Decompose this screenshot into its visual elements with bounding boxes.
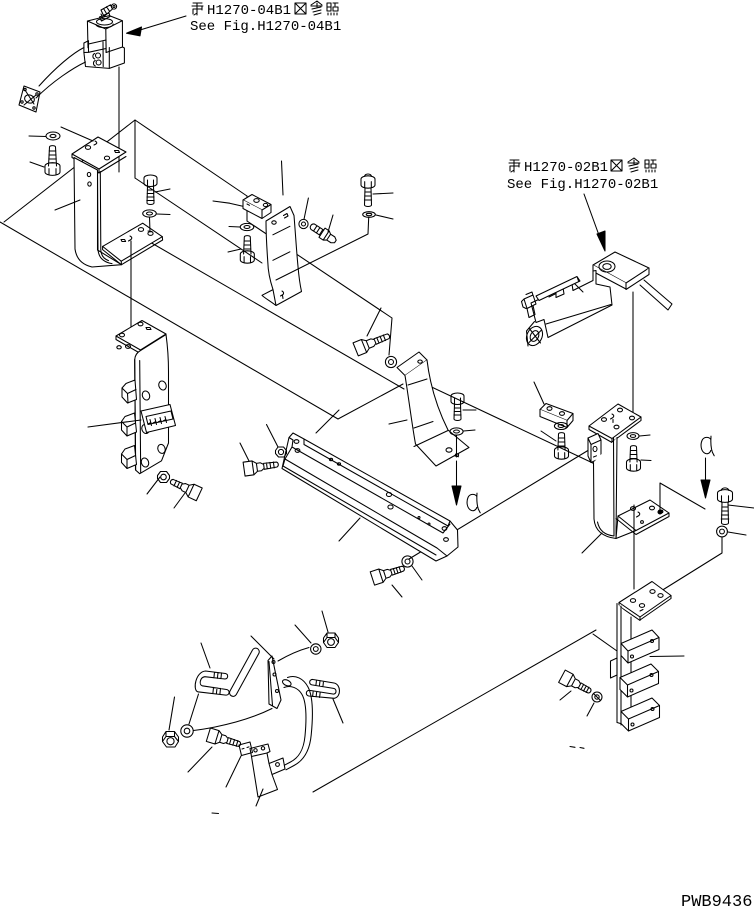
washer W4 <box>299 219 308 228</box>
panel corner riser <box>246 196 248 221</box>
panel line under V bracket <box>404 374 597 465</box>
washer W12 <box>554 423 567 430</box>
nut N3 <box>163 732 179 748</box>
bolt B11 <box>451 393 464 421</box>
washer W10 <box>385 356 396 367</box>
washer W11 <box>450 428 463 435</box>
leader valve 02B1 down <box>632 292 634 414</box>
bracket lower-left block B <box>122 413 137 436</box>
svg-text:H1270-02B1: H1270-02B1 <box>524 160 608 176</box>
pedal pin P1 <box>195 671 229 695</box>
block 02B1 small <box>540 404 573 421</box>
bolt B10 <box>353 329 392 356</box>
bolt B6 <box>144 175 157 205</box>
bracket lower-left block A <box>122 380 137 403</box>
U bracket side block <box>588 434 601 463</box>
bracket B foot <box>103 223 163 261</box>
leader polyline to washer W10 <box>247 221 392 355</box>
bolt B7 <box>206 728 242 751</box>
valve 04B1 connector <box>111 4 116 9</box>
strap bracket <box>262 207 302 306</box>
bracket B upper-left plate <box>72 137 126 169</box>
valve 04B1 hose <box>39 48 84 87</box>
bolt B14 <box>559 670 594 698</box>
arrow to valve 04B1 <box>140 16 186 30</box>
pedal foot bracket <box>250 744 285 797</box>
U bracket body <box>594 438 618 539</box>
leader a bolt to bracket <box>661 537 722 591</box>
washer W17 <box>717 526 728 537</box>
washer W5 <box>363 212 376 218</box>
bolt B17 <box>718 488 733 525</box>
bolt B13 <box>370 561 406 585</box>
leader washer W5 down <box>276 217 369 280</box>
fold stub to lower bracket <box>593 634 617 651</box>
lower bracket top plate <box>619 582 671 618</box>
text 04B1 CJK san <box>311 1 322 15</box>
pedal bar <box>230 648 260 696</box>
arrow a left <box>456 461 458 486</box>
lower bracket tab <box>611 658 618 678</box>
washer N4 <box>181 725 193 737</box>
bolt B3 <box>240 236 254 264</box>
panel diagonal mid <box>130 231 404 390</box>
panel fold line upper-left <box>4 120 135 222</box>
valve 04B1 clamp <box>84 40 125 68</box>
washer N1 <box>311 644 321 654</box>
text 04B1 CJK zu <box>295 3 306 14</box>
leader line to washer W13 <box>409 448 592 559</box>
panel corner at plate <box>338 384 403 419</box>
valve 02B1 fitting <box>522 292 537 318</box>
lower bracket web <box>617 604 631 727</box>
block 04B1 small <box>243 195 271 211</box>
bolt B8 <box>243 457 279 476</box>
big plate <box>282 433 458 561</box>
pedal wire upper <box>278 648 309 662</box>
valve 04B1 body <box>97 19 113 25</box>
svg-text:See Fig.H1270-04B1: See Fig.H1270-04B1 <box>190 19 341 35</box>
leader to plate corner <box>61 127 93 141</box>
pedal link plate <box>268 656 281 709</box>
panel corner right <box>660 483 705 510</box>
text 02B1 CJK san <box>628 158 639 172</box>
panel lower edge <box>135 178 262 263</box>
bolt B4 <box>308 221 339 246</box>
V bracket <box>397 352 427 376</box>
washer W14 <box>592 692 602 702</box>
text 02B1 CJK dai <box>509 160 520 172</box>
nut N5 <box>158 472 170 483</box>
text 04B1 CJK dai <box>192 3 203 15</box>
bracket lower-left web <box>135 335 169 474</box>
valve 04B1 flange <box>19 86 40 112</box>
panel corner vertical <box>134 120 136 178</box>
valve 02B1 port <box>523 324 545 349</box>
svg-text:See Fig.H1270-02B1: See Fig.H1270-02B1 <box>507 177 658 193</box>
washer W6 <box>627 433 639 440</box>
pedal pin P2 <box>306 679 339 698</box>
panel top edge to block <box>135 120 247 196</box>
dash bottom left <box>212 812 219 815</box>
text 04B1 CJK shou <box>327 3 338 15</box>
leader to bolt B10 <box>367 308 381 336</box>
lower bracket block 2 <box>620 664 659 697</box>
svg-text:H1270-04B1: H1270-04B1 <box>207 3 291 19</box>
washer W13 <box>402 556 413 567</box>
long fold line lower right <box>313 630 596 792</box>
arrow to valve 02B1 <box>584 194 600 238</box>
letter a right <box>701 436 714 456</box>
bolt B12 <box>555 433 569 460</box>
clamp block middle <box>141 405 176 433</box>
valve 02B1 body <box>531 271 612 338</box>
svg-text:PWB9436: PWB9436 <box>681 893 752 907</box>
nut N2 <box>324 633 339 648</box>
U bracket foot <box>616 500 669 539</box>
washer W8 <box>276 447 287 457</box>
pedal tube <box>286 677 312 770</box>
arrow a right <box>705 458 707 480</box>
bracket B channel <box>74 158 122 268</box>
pedal wire lower <box>194 709 273 731</box>
leader lower bracket right <box>650 655 684 658</box>
bolt B1 <box>45 146 60 176</box>
leader valve 04B1 down <box>118 67 120 172</box>
washer W3 <box>240 223 254 230</box>
valve 02B1 top block <box>593 252 649 283</box>
bolt B16 <box>627 446 641 472</box>
panel long diagonal <box>0 222 338 419</box>
lower bracket block 3 <box>621 698 660 731</box>
valve 02B1 handle <box>536 277 580 301</box>
dashes bottom <box>570 747 584 749</box>
text 02B1 CJK shou <box>645 160 656 172</box>
text 02B1 CJK zu <box>611 160 622 171</box>
valve 02B1 hose <box>640 280 672 310</box>
lower bracket block 1 <box>621 630 659 663</box>
valve 04B1 clamp ports <box>96 53 101 58</box>
washer W1 <box>46 132 60 140</box>
leader to lower bracket <box>633 505 635 589</box>
washer W2 <box>143 210 157 217</box>
bracket lower-left block C <box>122 446 137 469</box>
letter a left <box>467 493 480 513</box>
bolt B5 <box>361 174 375 207</box>
pedal clip <box>239 742 253 756</box>
bolt B15 <box>168 475 203 501</box>
U bracket top plate <box>589 404 641 439</box>
bracket lower-left top plate <box>116 321 166 351</box>
leader bracket B to lower bracket <box>130 244 132 338</box>
